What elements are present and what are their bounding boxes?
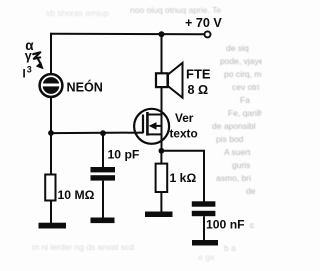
svg-text:A suert: A suert [224,147,251,157]
neon lamp N1 [40,74,63,97]
svg-text:γ: γ [25,49,32,63]
background page bleed-through noise (decorative) [32,5,264,262]
svg-text:m ni lerder ng ds anvat scd: m ni lerder ng ds anvat scd [32,242,134,252]
svg-text:a ge: a ge [198,252,215,262]
capacitor 100 nF [192,201,216,240]
svg-text:b a: b a [224,243,236,253]
ground (10 pF) [91,218,115,224]
svg-text:Fa: Fa [240,95,250,105]
ground (1 kohm) [145,212,173,218]
svg-text:cev otri: cev otri [232,82,260,92]
wire: gate horizontal [51,132,144,135]
svg-text:de: de [246,186,256,196]
svg-text:10 pF: 10 pF [108,148,140,162]
capacitor 10 pF [91,133,116,218]
svg-text:asmo, bri: asmo, bri [216,173,251,183]
label I3 [23,65,32,81]
svg-text:noo oiuq otnuq aprie. Te: noo oiuq otnuq aprie. Te [130,5,221,15]
wire: neon to gate node [50,96,52,134]
transistor Q1 (power MOSFET, "Ver texto") [134,109,169,144]
resistor 1 kohm [156,151,168,212]
speaker FTE 8 ohm [156,63,183,98]
label Ver texto [170,111,198,141]
svg-text:Fe, qarilh: Fe, qarilh [228,108,262,118]
svg-text:sb shoras arniup: sb shoras arniup [46,8,109,18]
svg-text:guris: guris [232,160,250,170]
svg-text:100 nF: 100 nF [206,218,245,232]
ground (100 nF) [192,240,218,246]
svg-text:Ver: Ver [175,111,194,125]
node A (gate junction left) [48,130,54,136]
svg-text:1 kΩ: 1 kΩ [170,171,197,185]
svg-text:pode, vjaye: pode, vjaye [220,56,262,66]
node C (source junction) [159,148,165,154]
svg-text:+ 70 V: + 70 V [185,16,222,30]
svg-text:pis bod: pis bod [216,134,244,144]
wire: source node to 100 nF [161,151,204,202]
svg-text:de siq: de siq [226,43,249,53]
terminal +70V [205,31,211,37]
resistor 10 Mohm [45,133,55,224]
svg-text:NEÓN: NEÓN [67,80,103,95]
svg-text:8 Ω: 8 Ω [188,83,209,97]
node B (10 pF tap) [100,130,106,136]
wire: right vertical rail (drain-source branch) [161,34,163,151]
svg-text:10 MΩ: 10 MΩ [58,188,95,202]
svg-text:texto: texto [170,126,198,140]
svg-text:po cirq, m: po cirq, m [224,69,261,79]
svg-text:I: I [23,69,26,81]
svg-text:3: 3 [27,65,32,75]
node top rail junction [159,31,165,37]
wire: +70V top rail [50,33,205,35]
ground (10 Mohm) [39,223,67,229]
svg-text:FTE: FTE [186,67,211,82]
light arrows (trigger light onto neon) [25,38,43,69]
svg-text:de aponsibl: de aponsibl [212,121,256,131]
wire: top rail to neon lamp [50,33,52,75]
